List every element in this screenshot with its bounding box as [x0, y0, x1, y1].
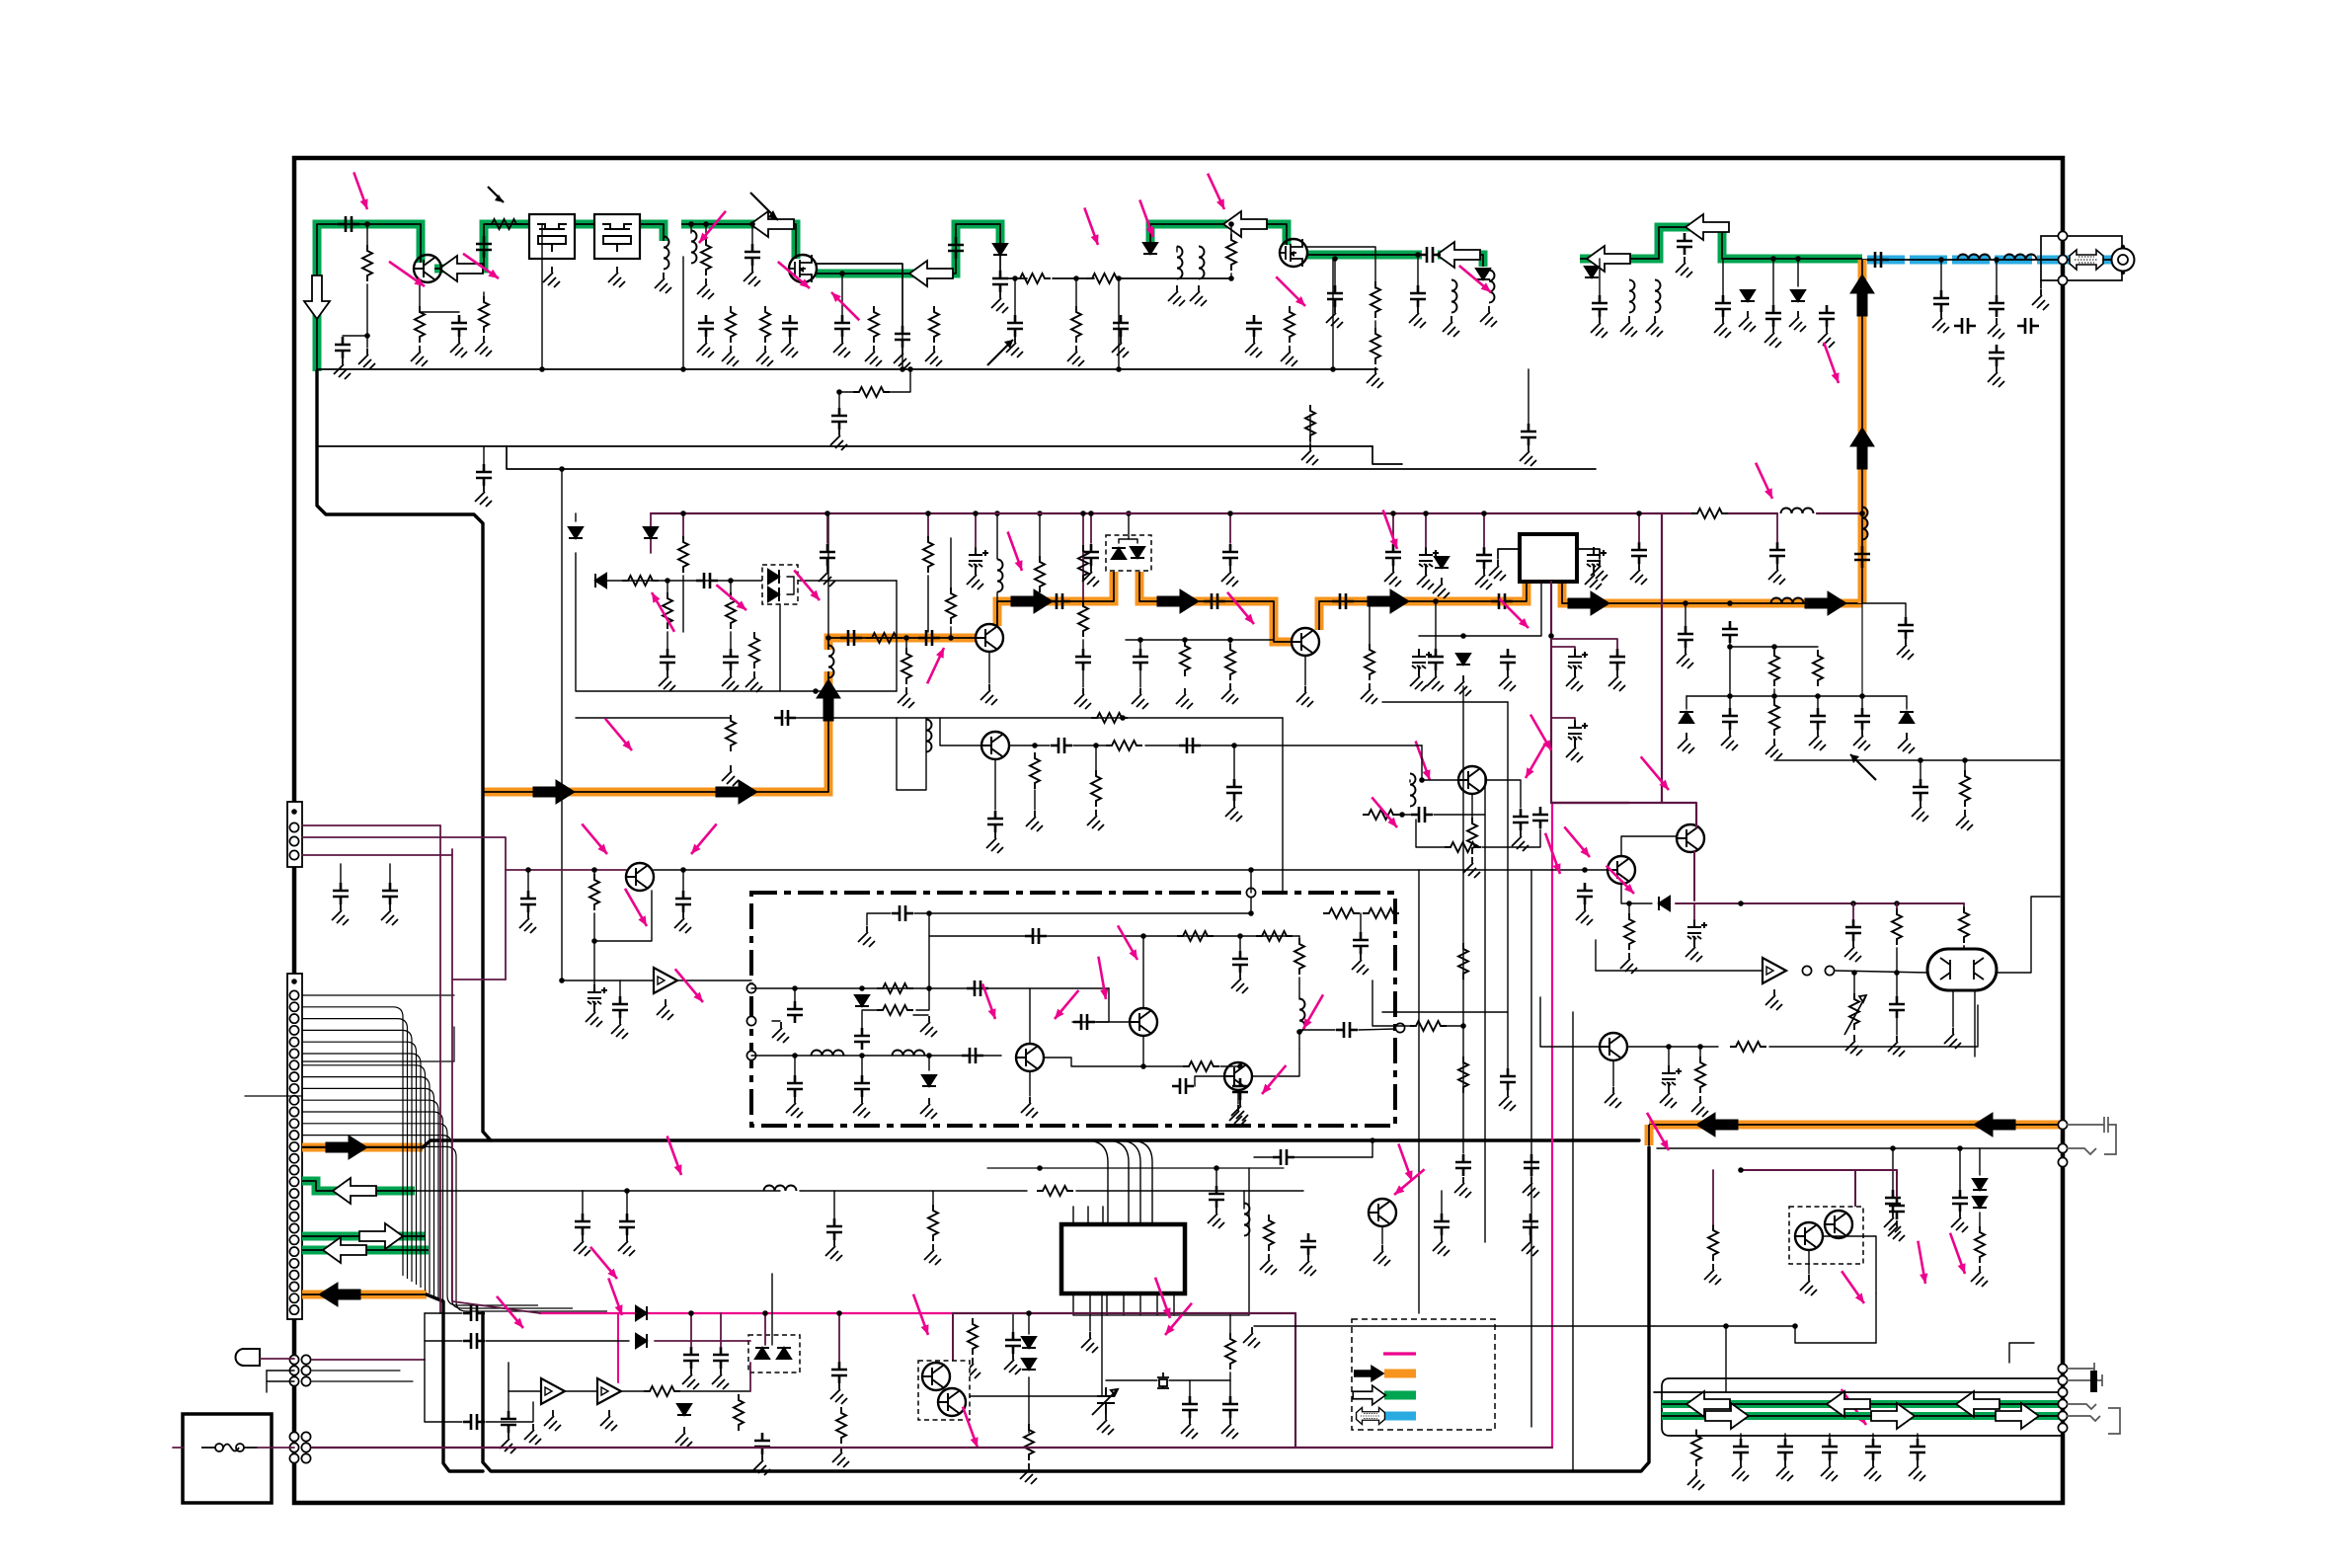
buffer U5	[541, 1378, 565, 1404]
wire	[1498, 549, 1520, 559]
ground	[1176, 688, 1193, 709]
speaker jack terminal 4	[2058, 1399, 2067, 1408]
junction	[1636, 510, 1642, 516]
dropper x1133	[1118, 278, 1120, 369]
ground	[543, 267, 560, 287]
wire	[838, 392, 840, 408]
resistor R6	[1305, 405, 1315, 441]
RX speaker path (green) line 2	[1662, 1412, 2060, 1420]
ground	[1301, 444, 1318, 465]
PLL wire A	[751, 987, 1109, 989]
junction	[1332, 256, 1338, 262]
wire	[1072, 1021, 1130, 1023]
connector P2 pin 5	[289, 1026, 298, 1035]
ground	[1299, 1255, 1316, 1276]
varactor link	[1119, 539, 1137, 543]
IC2 top pin 8 wire	[1072, 1207, 1074, 1224]
arrow at speaker path	[1842, 1271, 1864, 1303]
PLL top port wire	[1250, 870, 1252, 893]
junction	[839, 271, 845, 276]
varactor D12	[768, 588, 779, 601]
junction	[1666, 1044, 1672, 1050]
legend RX arrow	[1353, 1385, 1385, 1405]
PLL top ground	[858, 926, 875, 947]
capacitor C73	[382, 883, 398, 904]
wire	[1963, 903, 1965, 906]
capacitor C41	[1385, 544, 1401, 566]
junction	[1738, 901, 1744, 906]
ground	[1067, 346, 1084, 366]
connector P2 pin 1	[291, 979, 297, 984]
speaker jack terminal 2	[2058, 1375, 2067, 1384]
ground	[1809, 730, 1826, 750]
IC2 bottom link	[1073, 1314, 1249, 1316]
wire	[1075, 278, 1077, 306]
microphone MIC1	[236, 1349, 260, 1366]
zener D22	[677, 1404, 691, 1415]
resistor R24	[726, 592, 736, 629]
resistor R29	[1365, 644, 1374, 680]
ground	[1765, 739, 1782, 759]
varactor D29	[1131, 547, 1144, 558]
ground	[1475, 569, 1492, 589]
wire	[1861, 696, 1863, 708]
wire	[483, 292, 485, 296]
resistor R43 (series)	[877, 983, 913, 993]
ground	[853, 1097, 870, 1118]
connector P1 pin 2	[289, 823, 298, 831]
ground	[1020, 1463, 1037, 1484]
crystal wire r	[1169, 1379, 1230, 1381]
capacitor C39	[1083, 544, 1099, 566]
junction	[559, 978, 565, 983]
TX path (orange) vertical to antenna	[1858, 260, 1867, 603]
adjustment arrow into VCO	[625, 889, 647, 926]
wire	[841, 274, 843, 315]
capacitor C113 (series)	[463, 1414, 485, 1430]
junction	[994, 510, 1000, 516]
ground	[1765, 989, 1782, 1010]
ground	[618, 1235, 635, 1256]
wire	[927, 576, 929, 632]
wire	[1417, 255, 1419, 285]
resistor R51	[1624, 913, 1634, 950]
capacitor C27	[1327, 285, 1343, 307]
wire	[1381, 1226, 1383, 1244]
connector P2 pin 13	[289, 1119, 298, 1128]
IC2 right pin drop	[1248, 1168, 1250, 1315]
wire	[1612, 1060, 1614, 1086]
wire	[1854, 1170, 1856, 1208]
capacitor C116	[1889, 1198, 1905, 1219]
routing vertical A	[1418, 870, 1420, 1313]
IC2 pin 3 wire	[1106, 1294, 1108, 1315]
wire	[366, 224, 368, 245]
wire	[1184, 640, 1186, 642]
wire	[312, 1370, 400, 1372]
resistor R45 (series)	[1183, 1061, 1219, 1071]
capacitor C69b (series)	[1179, 738, 1201, 753]
ground	[832, 1447, 849, 1467]
diode D17	[1659, 897, 1670, 910]
ground	[865, 346, 882, 366]
capacitor C86	[1232, 951, 1248, 973]
wire	[1189, 1380, 1191, 1396]
junction	[1460, 1023, 1466, 1029]
optocoupler output wire	[970, 1395, 1102, 1397]
varactor D11	[768, 570, 779, 584]
junction	[1815, 693, 1821, 699]
ground	[1800, 1275, 1817, 1295]
adjustment-point arrow	[1530, 715, 1551, 750]
photodiode D19	[777, 1348, 791, 1359]
transistor Q1 (RF amp)	[414, 255, 441, 282]
connector harness wire 9	[302, 1100, 438, 1299]
note arrow (black) 4	[1850, 754, 1876, 780]
connector P2 pin 29	[289, 1305, 298, 1314]
R5 link	[839, 391, 857, 393]
resistor R9	[479, 296, 489, 333]
junction	[762, 1310, 768, 1316]
junction	[1415, 252, 1421, 258]
transistor Q8 (IF amp)	[626, 863, 654, 891]
wire	[1435, 601, 1437, 649]
inductor L19	[1244, 1204, 1250, 1236]
inductor L18	[1299, 999, 1305, 1032]
connector wire C	[302, 1027, 454, 1061]
speaker jack J3b	[2108, 1408, 2120, 1434]
junction	[1116, 275, 1122, 281]
resistor R5	[853, 387, 890, 397]
junction	[525, 867, 531, 873]
routing vertical C	[1484, 775, 1486, 1242]
junction	[703, 221, 709, 227]
capacitor C95	[619, 1214, 635, 1235]
diode D2	[1143, 243, 1157, 254]
wire	[913, 1014, 928, 1016]
wire	[975, 513, 977, 547]
capacitor C101	[1523, 1214, 1538, 1235]
adjustment-point arrow	[1416, 742, 1430, 781]
wire	[582, 1191, 584, 1214]
junction	[948, 635, 954, 641]
bias wire A	[1730, 646, 1818, 648]
capacitor C83	[1232, 1078, 1248, 1100]
TX direction arrow	[1568, 591, 1609, 615]
wire	[1250, 898, 1252, 913]
osc wire 2	[597, 580, 897, 582]
antenna jack J1	[2112, 249, 2135, 272]
resistor R75	[946, 588, 956, 624]
ground	[675, 1427, 692, 1448]
adjustment-point arrow	[605, 719, 632, 750]
ground	[1660, 1087, 1677, 1108]
ground	[744, 266, 760, 286]
wire	[1039, 513, 1041, 556]
ground	[1768, 564, 1785, 585]
ground	[898, 687, 914, 708]
connector harness wire 12	[302, 1136, 573, 1308]
wire	[1139, 640, 1141, 649]
ground	[1988, 318, 2004, 339]
junction	[1727, 600, 1733, 606]
ground	[1221, 566, 1238, 587]
capacitor C67	[987, 811, 1003, 832]
ground	[1231, 973, 1248, 993]
wire	[1422, 745, 1458, 780]
ground	[1410, 670, 1427, 691]
junction	[859, 1053, 865, 1058]
wire	[1076, 1190, 1303, 1192]
capacitor C120	[1865, 1439, 1881, 1460]
speaker box SP1	[183, 1414, 272, 1503]
junction	[728, 578, 734, 584]
wire	[1229, 1380, 1231, 1396]
connector P2 pin 8	[289, 1060, 298, 1069]
capacitor C1 (series, RX in)	[338, 216, 359, 232]
connector P2 pin 21	[289, 1213, 298, 1221]
wire	[1797, 259, 1799, 286]
ground	[697, 337, 714, 357]
wire	[1808, 1250, 1810, 1274]
resistor R39	[1467, 818, 1477, 854]
wire	[950, 627, 952, 638]
wire	[996, 592, 998, 624]
junction	[1399, 812, 1405, 818]
ground	[1004, 1354, 1021, 1374]
ground	[1608, 670, 1625, 691]
junction	[364, 333, 370, 339]
ground	[1225, 801, 1242, 822]
bus branch wire 1	[1086, 1140, 1108, 1224]
wire	[787, 577, 794, 594]
ground	[1951, 1212, 1968, 1232]
dropper x569b	[561, 469, 563, 980]
ground	[1912, 801, 1928, 822]
capacitor C10 (series)	[1491, 593, 1513, 609]
capacitor C34	[1954, 318, 1976, 334]
wire y1183	[987, 1167, 1284, 1169]
zener diode D15	[1900, 712, 1914, 723]
RX path (green) segment 2	[434, 224, 529, 269]
connector P2 pin 25	[289, 1259, 298, 1268]
wire	[1044, 1058, 1185, 1066]
transistor Q10	[1130, 1008, 1157, 1036]
resistor R69 (in-line)	[1458, 1057, 1468, 1093]
wire	[173, 1447, 183, 1449]
Q4 emitter ground	[980, 684, 997, 705]
junction	[900, 366, 905, 372]
IC2 pin 4 wire	[1123, 1294, 1125, 1315]
PLL port 2 ground	[772, 1022, 789, 1043]
connector P4 pin 2	[301, 1443, 310, 1451]
wire	[794, 988, 796, 1001]
junction	[1227, 510, 1233, 516]
ground	[1454, 675, 1471, 696]
connector P2 pin 15	[289, 1142, 298, 1151]
IC2 pin 5 wire	[1139, 1294, 1141, 1315]
capacitor C62	[1722, 708, 1738, 730]
resistor R12	[760, 306, 770, 343]
RX path (green) segment 8	[1307, 251, 1422, 260]
maroon bias wire	[1741, 1169, 1897, 1171]
connector P1 housing	[287, 802, 302, 867]
capacitor C119	[1822, 1439, 1838, 1460]
ground	[964, 1358, 980, 1378]
capacitor C71 (series)	[1532, 807, 1548, 828]
capacitor C77	[612, 996, 628, 1018]
wire	[1372, 1140, 1373, 1157]
wire	[1551, 647, 1575, 649]
connector P4 pin 5	[289, 1443, 298, 1451]
capacitor C118	[1777, 1439, 1793, 1460]
capacitor C76	[675, 891, 691, 912]
inductor L11	[1629, 280, 1635, 313]
Q5 emitter ground	[1296, 686, 1313, 707]
ground	[1591, 317, 1607, 338]
speaker jack terminal 1	[2058, 1364, 2067, 1372]
wire	[1360, 913, 1362, 932]
junction	[1727, 644, 1733, 650]
thick bus wire joint	[423, 1140, 491, 1147]
maroon audio rail	[953, 1312, 1295, 1314]
adjustment-point arrow	[1383, 510, 1397, 550]
adjustment-point arrow	[590, 1247, 617, 1279]
RX direction arrow	[1587, 246, 1630, 272]
capacitor C31	[1819, 305, 1835, 327]
wire	[1896, 948, 1898, 973]
wire	[486, 1340, 629, 1342]
ground	[986, 832, 1003, 853]
crystal filter XF1	[529, 214, 575, 259]
capacitor C125	[1500, 1068, 1516, 1090]
junction	[1770, 256, 1776, 262]
speaker jack J3	[2067, 1363, 2102, 1421]
capacitor C85 (series)	[1025, 928, 1047, 944]
PLL wire C	[929, 935, 1299, 937]
maroon from P1 b	[302, 824, 440, 826]
bias rail (maroon)	[1676, 902, 1964, 904]
wire	[1829, 1434, 1831, 1439]
maroon drop to optocoupler	[952, 1313, 954, 1361]
wire	[1139, 670, 1141, 687]
capacitor C99 (series)	[1273, 1149, 1294, 1165]
wire	[1298, 978, 1300, 999]
wire	[1374, 321, 1376, 328]
wire	[1233, 745, 1235, 779]
capacitor C7 (series)	[840, 630, 862, 646]
ground	[1433, 578, 1450, 598]
junction	[1918, 757, 1923, 763]
PLL port 1	[746, 983, 755, 992]
mic return wire	[1657, 1147, 2063, 1149]
capacitor C112 (series)	[463, 1305, 485, 1321]
ground	[1591, 560, 1607, 581]
adjustment-point arrow	[699, 211, 726, 243]
connector P2 pin 22	[289, 1223, 298, 1232]
resistor R67	[1691, 1430, 1701, 1466]
junction	[824, 510, 830, 516]
TX direction arrow	[1011, 589, 1053, 613]
osc wire 4	[785, 717, 897, 719]
ground	[1221, 683, 1238, 704]
junction	[1227, 637, 1233, 643]
RX speaker path (green) line 1	[1662, 1400, 2060, 1408]
osc wire 3	[576, 717, 731, 719]
resistor R14	[929, 306, 939, 343]
junction	[1330, 366, 1336, 372]
ground	[1789, 311, 1806, 332]
pass transistor Q16	[922, 1363, 950, 1390]
wire	[1964, 760, 1966, 770]
capacitor C79 (series)	[967, 980, 988, 996]
ground	[1821, 1460, 1838, 1481]
capacitor C82	[854, 1075, 870, 1097]
wire	[861, 1011, 863, 1029]
wire	[1309, 415, 1311, 446]
adjustment-point arrow	[831, 292, 859, 320]
resistor R58 (series)	[1037, 1186, 1073, 1196]
wire	[1090, 513, 1092, 543]
capacitor C64	[1854, 708, 1870, 730]
junction	[1248, 867, 1254, 873]
connector harness wire 1	[302, 1007, 403, 1276]
resistor R74	[902, 648, 911, 684]
speaker lines frame	[1662, 1378, 2063, 1436]
ground	[1687, 1469, 1704, 1490]
connector wire A	[302, 994, 454, 996]
capacitor C115	[1952, 1190, 1968, 1212]
crystal filter XF2	[594, 214, 640, 259]
adjustment-point arrow	[1607, 866, 1634, 894]
adjustment-point arrow	[1499, 598, 1529, 628]
wire	[1073, 745, 1106, 746]
ground	[1417, 569, 1434, 589]
buffer U6	[597, 1378, 621, 1404]
ground	[1520, 445, 1536, 466]
wire	[366, 336, 368, 348]
capacitor C103	[1222, 1396, 1238, 1418]
ground	[1909, 1460, 1925, 1481]
ground	[1630, 564, 1647, 585]
Q3 feedback wire	[1307, 247, 1375, 288]
capacitor C9c (series)	[1332, 593, 1354, 609]
wire	[1039, 595, 1041, 601]
wire	[751, 224, 753, 244]
ground	[1686, 941, 1702, 962]
wire	[1699, 1047, 1701, 1057]
wire	[666, 632, 668, 649]
connector P2 pin 6	[289, 1038, 298, 1047]
adjustment-point arrow	[691, 823, 717, 854]
mic jack ring terminal	[2058, 1143, 2067, 1152]
RX path (green) segment 4	[681, 224, 796, 259]
diode D10	[595, 574, 606, 588]
ground	[830, 430, 847, 450]
mic wire	[260, 1358, 294, 1360]
ground	[712, 1369, 729, 1389]
transistor Q9 (VCO)	[1016, 1044, 1044, 1071]
control rail (magenta)	[540, 1312, 953, 1314]
wire	[1096, 988, 1109, 1022]
junction	[665, 578, 670, 584]
zener diode D14	[1680, 712, 1693, 723]
connector P2 pin 20	[289, 1201, 298, 1210]
adjustment-point arrow	[1055, 990, 1078, 1019]
TX direction arrow	[716, 780, 757, 804]
U3 output down	[1974, 990, 1976, 1057]
resistor R3 (series)	[1086, 274, 1123, 283]
